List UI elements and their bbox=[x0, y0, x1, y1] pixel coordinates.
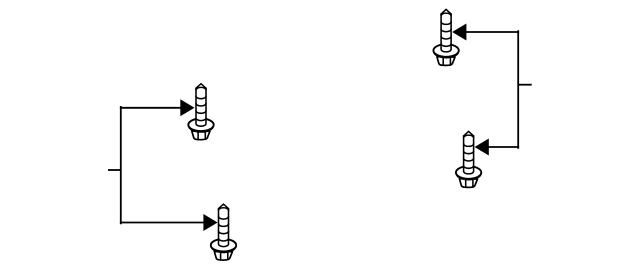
arrowhead to bolt B4 bbox=[475, 139, 489, 156]
bracket vertical wire, left group bbox=[120, 107, 122, 223]
leader wire to bolt B1 (top horizontal, left group) bbox=[121, 107, 184, 109]
tick stub, left group bbox=[108, 169, 121, 171]
bracket vertical wire, right group bbox=[517, 31, 519, 148]
leader wire to bolt B4 (bottom horizontal, right group) bbox=[486, 146, 518, 148]
leader wire to bolt B2 (bottom horizontal, left group) bbox=[121, 222, 206, 224]
leader wire to bolt B3 (top horizontal, right group) bbox=[463, 31, 518, 33]
arrowhead to bolt B1 bbox=[180, 99, 194, 116]
arrowhead to bolt B2 bbox=[203, 214, 217, 231]
bolt B3 top-right bbox=[433, 9, 458, 65]
tick stub, right group bbox=[518, 84, 532, 86]
bolt B2 bottom-left bbox=[211, 204, 236, 260]
arrowhead to bolt B3 bbox=[452, 24, 466, 41]
bolt B1 top-left bbox=[188, 84, 213, 140]
bolt B4 mid-right bbox=[456, 131, 481, 187]
